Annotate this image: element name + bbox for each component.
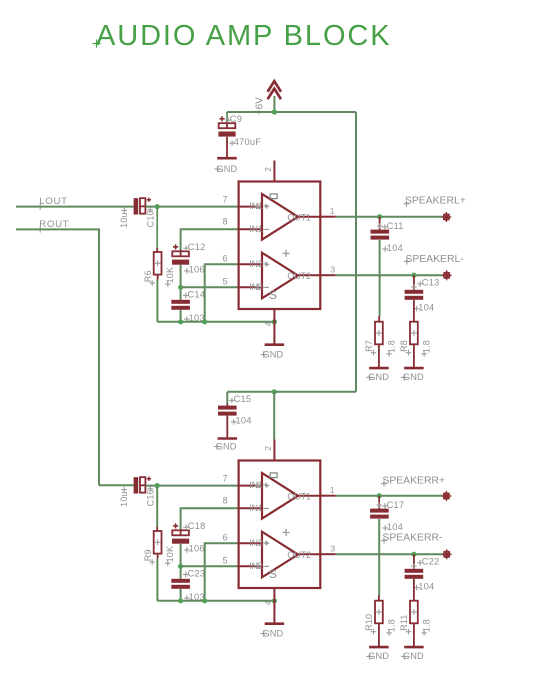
- label SPEAKERR-: [381, 533, 442, 544]
- pin number 2 U1: [263, 167, 273, 172]
- value 10K of R9: [165, 546, 175, 566]
- junction mid supply node: [272, 389, 277, 394]
- pin number 1 U2: [330, 485, 335, 495]
- capacitor C23: [171, 568, 205, 602]
- svg-text:5: 5: [223, 277, 228, 287]
- svg-text:IN1-: IN1-: [249, 224, 266, 234]
- svg-text:OUT2: OUT2: [287, 550, 311, 560]
- svg-text:C23: C23: [188, 568, 206, 578]
- supply +6V arrow: [268, 81, 281, 99]
- wire C23 to ground rail: [180, 589, 182, 601]
- svg-text:470uF: 470uF: [234, 137, 261, 147]
- capacitor C22: [405, 557, 440, 592]
- wire C22 top lead: [411, 554, 417, 569]
- capacitor C10: [119, 198, 155, 228]
- svg-text:GND: GND: [216, 441, 237, 451]
- wire pin3 stub: [320, 274, 335, 276]
- junction C17 node: [377, 493, 382, 498]
- svg-text:C14: C14: [188, 289, 206, 299]
- capacitor C16: [119, 477, 155, 507]
- wire OUT1 to speaker: [336, 216, 443, 218]
- pin number 4 U1: [263, 321, 273, 326]
- pin number 3 U1: [330, 265, 335, 275]
- pin number 1 U1: [330, 206, 335, 216]
- resistor R7: [375, 322, 383, 345]
- wire R9 top lead: [156, 527, 158, 531]
- pin number 6 U1: [223, 253, 228, 263]
- capacitor C11: [371, 221, 404, 253]
- svg-text:5: 5: [223, 556, 228, 566]
- wire C11 to R7: [379, 240, 381, 316]
- op-amp IC U1 body: [239, 182, 321, 310]
- label SPEAKERR+: [381, 475, 445, 486]
- ground below C15: [214, 439, 237, 452]
- svg-text:1.8: 1.8: [387, 619, 397, 632]
- wire ROUT: [16, 229, 99, 485]
- svg-text:R7: R7: [364, 340, 374, 352]
- wire R6 to ground rail: [156, 280, 158, 322]
- pin number 4 U2: [263, 600, 273, 605]
- svg-text:104: 104: [387, 243, 403, 253]
- svg-text:OUT1: OUT1: [287, 492, 311, 502]
- svg-text:C17: C17: [387, 500, 405, 510]
- svg-text:7: 7: [223, 473, 228, 483]
- wire C9 bottom lead: [226, 137, 228, 157]
- svg-text:R6: R6: [143, 270, 153, 282]
- junction C12-C14 node: [178, 285, 183, 290]
- svg-text:1.8: 1.8: [387, 340, 397, 353]
- wire C13 top lead: [411, 275, 417, 290]
- junction C22 node: [411, 552, 416, 557]
- svg-text:C9: C9: [230, 114, 242, 124]
- ground below R8: [401, 368, 424, 382]
- ground below C9: [215, 158, 238, 174]
- svg-text:R8: R8: [399, 340, 409, 352]
- wire supply rail right vertical: [355, 112, 357, 392]
- svg-text:GND: GND: [368, 651, 389, 661]
- junction C10 output node: [155, 204, 160, 209]
- pin lead IN2- U1: [239, 282, 266, 292]
- pin number 7 U1: [223, 194, 228, 204]
- label R11: [399, 614, 411, 634]
- svg-text:10K: 10K: [165, 267, 175, 284]
- svg-text:104: 104: [236, 416, 252, 426]
- svg-text:6: 6: [223, 532, 228, 542]
- ground pin 4 stub U1: [273, 309, 275, 344]
- label R6: [143, 270, 155, 286]
- capacitor C14: [171, 289, 205, 323]
- capacitor C13: [405, 278, 440, 313]
- wire ROUT to C16: [99, 484, 134, 486]
- svg-text:C10: C10: [145, 210, 155, 227]
- pin number 6 U2: [223, 532, 228, 542]
- svg-text:S: S: [269, 567, 277, 581]
- wire R11 bottom lead: [413, 623, 415, 646]
- svg-text:C18: C18: [188, 521, 206, 531]
- svg-text:R11: R11: [399, 614, 409, 630]
- wire pin5 U2: [181, 565, 238, 567]
- wire C17 top lead: [376, 496, 382, 509]
- wire R6 bottom lead: [157, 275, 159, 280]
- svg-text:C15: C15: [234, 394, 252, 404]
- ground below R11: [401, 647, 424, 661]
- svg-text:1: 1: [330, 206, 335, 216]
- wire R7 top lead: [378, 316, 380, 322]
- wire C18 to C23: [180, 544, 182, 579]
- ground pin 4 stub U2: [273, 588, 275, 623]
- value 1.8 of R7: [386, 340, 396, 357]
- svg-text:OUT2: OUT2: [287, 271, 311, 281]
- svg-text:GND: GND: [403, 372, 424, 382]
- wire C14 to ground rail: [180, 310, 182, 322]
- pin lead OUT2 U2: [287, 550, 320, 560]
- wire pin5: [181, 286, 238, 288]
- pin lead IN1- U1: [239, 224, 266, 234]
- capacitor C17: [370, 500, 404, 532]
- wire C13 to R8: [413, 300, 415, 322]
- wire OUT2 U2 to speaker: [336, 553, 443, 555]
- pin lead IN2+ U1: [239, 259, 268, 269]
- junction C16 output node: [155, 483, 160, 488]
- op-amp U2A triangle: [262, 473, 298, 519]
- wire pin8 to C18: [181, 508, 238, 530]
- label ROUT: [37, 219, 69, 233]
- pad SPEAKERR+: [441, 491, 451, 501]
- svg-text:SPEAKERL-: SPEAKERL-: [405, 254, 463, 265]
- svg-text:GND: GND: [263, 628, 284, 638]
- ground below IC1: [261, 345, 285, 360]
- ground below R7: [366, 368, 389, 382]
- svg-text:GND: GND: [263, 349, 284, 359]
- svg-text:GND: GND: [368, 372, 389, 382]
- svg-text:SPEAKERL+: SPEAKERL+: [405, 195, 466, 206]
- svg-text:SPEAKERR+: SPEAKERR+: [382, 475, 445, 486]
- pad SPEAKERR-: [442, 549, 452, 559]
- svg-text:IN1-: IN1-: [249, 503, 266, 513]
- wire R10 top lead: [378, 595, 380, 601]
- svg-text:8: 8: [223, 496, 228, 506]
- wire C15 bottom lead: [226, 416, 228, 438]
- pin number 3 U2: [330, 544, 335, 554]
- svg-text:7: 7: [223, 194, 228, 204]
- op-amp U1B triangle: [262, 253, 298, 299]
- svg-text:10u: 10u: [119, 212, 129, 228]
- label R8: [399, 340, 411, 356]
- svg-text:106: 106: [189, 265, 205, 275]
- pin lead OUT1 U2: [287, 492, 320, 502]
- svg-text:OUT1: OUT1: [287, 213, 311, 223]
- gate origin marks U1: [255, 194, 290, 302]
- svg-text:104: 104: [387, 522, 403, 532]
- op-amp IC U2 body: [239, 461, 321, 589]
- wire OUT2 to speaker: [336, 274, 443, 276]
- svg-text:SPEAKERR-: SPEAKERR-: [382, 533, 442, 544]
- svg-text:AUDIO AMP BLOCK: AUDIO AMP BLOCK: [96, 20, 392, 52]
- op-amp U1A triangle: [262, 194, 298, 240]
- label LOUT: [37, 196, 68, 210]
- wire node to R9: [156, 486, 158, 527]
- wire supply rail mid horizontal: [227, 391, 356, 393]
- gate origin marks U2: [255, 473, 290, 581]
- label +6V: [255, 97, 266, 116]
- junction C14 gnd: [178, 319, 183, 324]
- svg-text:1: 1: [330, 485, 335, 495]
- junction pin6 gnd: [202, 319, 207, 324]
- pin lead OUT1 U1: [287, 213, 320, 223]
- svg-text:6: 6: [223, 253, 228, 263]
- wire R8 bottom lead: [413, 344, 415, 367]
- wire ground rail: [157, 321, 274, 323]
- svg-text:GND: GND: [217, 164, 238, 174]
- svg-text:C12: C12: [188, 242, 206, 252]
- svg-text:C16: C16: [145, 489, 155, 506]
- wire C10 to pin7: [146, 206, 238, 208]
- wire C11 top lead: [377, 217, 383, 230]
- wire C12 to C14: [180, 265, 182, 300]
- junction +6V node: [272, 109, 277, 114]
- pin lead IN1+ U1: [239, 201, 268, 211]
- junction C18-C23 node: [178, 564, 183, 569]
- label SPEAKERL+: [404, 195, 466, 206]
- resistor R10: [375, 601, 383, 624]
- svg-text:106: 106: [189, 544, 205, 554]
- pin number 5 U1: [223, 277, 228, 287]
- value 10K of R6: [165, 267, 175, 287]
- pad SPEAKERL+: [441, 212, 451, 222]
- capacitor C18: [172, 521, 205, 554]
- power pin 2 stub U2: [273, 440, 275, 461]
- wire R7 bottom lead: [378, 344, 380, 367]
- wire C17 to R10: [378, 519, 380, 595]
- label R7: [364, 340, 376, 356]
- wire +6V rail horizontal: [227, 111, 356, 113]
- pin number 7 U2: [223, 473, 228, 483]
- svg-text:104: 104: [418, 581, 434, 591]
- label SPEAKERL-: [404, 254, 464, 265]
- wire +6V stub: [273, 96, 275, 112]
- capacitor C12: [172, 242, 205, 275]
- title AUDIO AMP BLOCK: [93, 20, 392, 52]
- wire C16 to pin7: [146, 485, 238, 487]
- svg-text:S: S: [269, 288, 277, 302]
- svg-text:104: 104: [418, 302, 434, 312]
- wire pin3 stub U2: [320, 553, 335, 555]
- svg-text:3: 3: [330, 265, 335, 275]
- wire OUT1 U2 to speaker: [336, 495, 443, 497]
- pin number 8 U1: [223, 217, 228, 227]
- svg-text:3: 3: [330, 544, 335, 554]
- pin number 8 U2: [223, 496, 228, 506]
- svg-text:C22: C22: [422, 557, 440, 567]
- value 1.8 of R11: [421, 619, 431, 636]
- pin number 2 U2: [263, 446, 273, 451]
- svg-text:C11: C11: [387, 221, 404, 231]
- svg-text:2: 2: [263, 167, 273, 172]
- wire pin1 stub: [320, 216, 335, 218]
- wire C22 to R11: [413, 579, 415, 601]
- junction IC2 gnd: [272, 598, 277, 603]
- wire pin1 stub U2: [320, 495, 335, 497]
- wire pin6 to ground rail U2: [205, 543, 238, 601]
- pad SPEAKERL-: [442, 270, 452, 280]
- label R9: [143, 549, 155, 565]
- junction pin6 gnd U2: [202, 598, 207, 603]
- svg-text:1.8: 1.8: [422, 340, 432, 353]
- wire C15 lead maroon: [226, 404, 228, 406]
- junction C13 node: [411, 273, 416, 278]
- svg-text:GND: GND: [403, 651, 424, 661]
- svg-text:4: 4: [263, 321, 273, 326]
- ground below R10: [366, 647, 389, 661]
- svg-text:LOUT: LOUT: [39, 196, 67, 207]
- pin lead IN1- U2: [239, 503, 266, 513]
- svg-text:ROUT: ROUT: [39, 219, 69, 230]
- wire node to R6: [156, 207, 158, 248]
- op-amp U2B triangle: [262, 532, 298, 578]
- pin number 5 U2: [223, 556, 228, 566]
- power pin 2 stub U1: [273, 161, 275, 182]
- wire R9 to ground rail: [156, 559, 158, 601]
- svg-text:10u: 10u: [119, 491, 129, 507]
- svg-text:R10: R10: [364, 614, 374, 631]
- svg-text:2: 2: [263, 446, 273, 451]
- wire C15 top lead: [226, 392, 228, 404]
- value 1.8 of R8: [421, 340, 431, 357]
- pin lead IN1+ U2: [239, 480, 268, 490]
- capacitor C9: [218, 114, 261, 147]
- wire mid node to pin2 of U2: [273, 392, 275, 440]
- resistor R11: [410, 601, 418, 624]
- wire C9 top lead: [226, 112, 228, 123]
- junction C11 node: [377, 214, 382, 219]
- wire pin6 to ground rail: [205, 264, 238, 322]
- wire ground rail U2: [157, 600, 274, 602]
- junction IC gnd: [272, 319, 277, 324]
- junction C23 gnd: [178, 598, 183, 603]
- svg-text:1.8: 1.8: [422, 619, 432, 632]
- svg-text:C13: C13: [422, 278, 440, 288]
- capacitor C15: [218, 394, 252, 426]
- wire R9 bottom lead: [157, 554, 159, 559]
- ground below IC2: [261, 624, 285, 639]
- wire R10 bottom lead: [378, 623, 380, 646]
- svg-text:10K: 10K: [165, 546, 175, 563]
- pin lead IN2- U2: [239, 561, 266, 571]
- pin lead OUT2 U1: [287, 271, 320, 281]
- resistor R6: [154, 252, 162, 275]
- svg-text:4: 4: [263, 600, 273, 605]
- resistor R9: [154, 531, 162, 554]
- wire pin8 to C12: [181, 229, 238, 251]
- label R10: [364, 614, 376, 635]
- resistor R8: [410, 322, 418, 345]
- pin lead IN2+ U2: [239, 538, 268, 548]
- svg-text:R9: R9: [143, 549, 153, 561]
- wire LOUT: [16, 206, 134, 208]
- svg-text:8: 8: [223, 217, 228, 227]
- wire R6 top lead: [156, 248, 158, 252]
- value 1.8 of R10: [386, 619, 396, 636]
